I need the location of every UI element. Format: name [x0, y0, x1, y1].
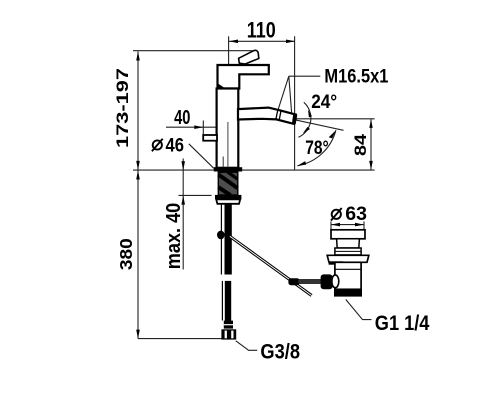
78 degree arc: [297, 130, 336, 166]
wire: left vertical dimension line x=138 (173-197 and 380): [137, 52, 139, 339]
base flange: [214, 167, 242, 171]
drain body: [335, 262, 361, 289]
wire: 40 dimension line: [166, 126, 238, 128]
wire: right vertical extension at aerator tip: [294, 36, 296, 170]
arrow 84 bottom: [369, 161, 373, 170]
wire: flow direction slope line (78 deg side): [285, 118, 344, 131]
horizontal actuator rod: [298, 280, 322, 284]
arrow 78deg arc top: [329, 130, 336, 138]
spout: [238, 108, 296, 124]
wire: dia63 dimension line: [331, 224, 364, 226]
svg-text:84: 84: [352, 133, 370, 156]
24 degree arc: [299, 102, 311, 137]
arrow 84 top: [369, 119, 372, 128]
wire: dia46 leader: [189, 144, 214, 169]
spout joint line 2: [279, 111, 281, 120]
wire: M16.5x1 leader leg left: [278, 76, 289, 109]
wire: dia63 left extension: [330, 222, 332, 230]
drain collar ring: [332, 275, 339, 288]
arrow 110 left: [229, 40, 238, 44]
drain valve neck: [337, 239, 360, 248]
top cap: [218, 65, 269, 89]
svg-text:46: 46: [166, 134, 185, 156]
wire: 40 left extension line: [202, 121, 204, 135]
svg-text:40: 40: [174, 106, 190, 129]
drain thread band: [334, 289, 362, 296]
wire: M16.5x1 leader leg right: [289, 76, 292, 112]
wire: bottom extension line to G3/8 fitting: [138, 338, 222, 340]
svg-text:78°: 78°: [305, 137, 329, 159]
arrow 173-197 bottom: [136, 161, 140, 170]
rod clamp: [288, 278, 299, 285]
arrow 78deg arc bottom: [297, 161, 306, 166]
arrow max40 bottom (outside, pointing up): [181, 196, 185, 205]
arrow dia63 left: [331, 223, 340, 227]
svg-text:G3/8: G3/8: [260, 340, 300, 363]
svg-text:63: 63: [345, 204, 367, 225]
svg-text:173-197: 173-197: [113, 68, 132, 148]
svg-text:M16.5x1: M16.5x1: [324, 65, 388, 87]
lever handle: [239, 50, 259, 64]
svg-text:max. 40: max. 40: [163, 203, 185, 269]
arrow dia63 right: [355, 223, 364, 227]
drain valve top cap: [331, 230, 365, 239]
arrow 110 right: [286, 40, 295, 44]
wire: deck underside line: [179, 194, 212, 196]
spout joint line 1: [276, 110, 278, 119]
wire: body centreline: [227, 122, 229, 170]
arrow 24deg arc top: [308, 110, 312, 118]
wire: dia63 right extension: [363, 222, 365, 230]
arrow 40 right (outside, pointing left): [228, 125, 237, 129]
wire: 84 top extension line: [285, 118, 375, 120]
G3/8 end fitting: [224, 321, 233, 329]
actuator knob: [321, 274, 333, 289]
drain valve ring: [335, 248, 361, 255]
hose ball fitting: [217, 231, 225, 240]
arrow max40 top (outside, pointing down): [181, 161, 185, 170]
arrow 40 left (outside, pointing right): [194, 125, 203, 129]
cap pinch mark: [218, 83, 226, 88]
wire: M16.5x1 leader horizontal: [289, 75, 321, 77]
hose break: [221, 281, 223, 321]
supply hose upper: [220, 204, 222, 275]
wire: max.40 dimension line: [182, 159, 184, 270]
arrow 380 bottom: [136, 330, 140, 339]
arrow 173-197 top: [136, 52, 140, 61]
body centreline segment inside: [227, 122, 229, 167]
side fixing box: [203, 135, 217, 141]
wire: 84 dimension line: [370, 119, 372, 170]
drain mounting flange: [327, 255, 369, 262]
svg-text:110: 110: [247, 18, 276, 43]
svg-text:24°: 24°: [311, 91, 337, 113]
wire: inner hose line in body: [222, 157, 224, 168]
wire: G1 1/4 leader: [346, 300, 372, 320]
body column: [217, 89, 239, 168]
label dia46 symbol: [153, 140, 162, 149]
arrow 380 top: [136, 171, 140, 180]
pop-up rod: [230, 236, 312, 295]
threaded shank (hatched): [218, 172, 238, 195]
wire: faucet centre axis extension (110 left): [228, 36, 230, 64]
mounting nut: [215, 195, 241, 199]
wire: 110 dimension line: [229, 40, 295, 42]
svg-text:380: 380: [116, 238, 136, 270]
label dia63 symbol: [332, 210, 341, 219]
svg-text:G1 1/4: G1 1/4: [375, 312, 430, 335]
aerator tip face: [292, 114, 297, 125]
drain flange underside shadow: [329, 261, 344, 264]
wire: mounting plane line: [133, 169, 375, 171]
wire: G3/8 leader: [236, 341, 257, 351]
arrow 24deg arc bottom: [303, 127, 310, 134]
wire: top extension line y=50.6 (height datum): [133, 50, 253, 52]
